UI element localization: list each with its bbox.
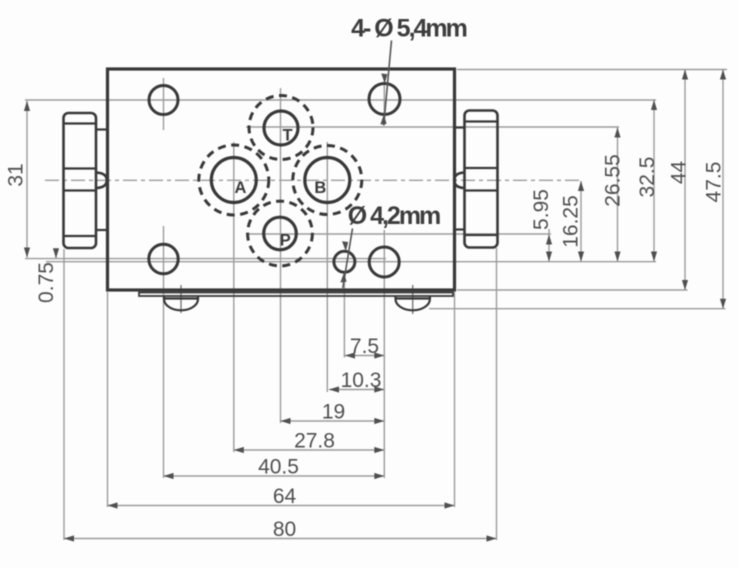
column port B [326,142,328,392]
port T dashed circle [249,96,313,160]
left tab detent bump [96,173,107,189]
port B dashed circle [293,146,362,215]
dim 26.55 arrow up [614,128,620,138]
svg-text:27.8: 27.8 [294,430,335,453]
port T solid circle [264,111,298,145]
dim 47.5 arrow down [720,299,726,309]
port A dashed circle [199,145,269,215]
right bump center tick [412,285,414,314]
dim 16.25 arrow down [578,252,584,262]
column right holes upper [383,80,385,125]
dimension 7.5 line [345,355,384,357]
plate body [108,69,455,290]
port B solid circle [305,158,350,203]
left side tab [64,113,97,248]
svg-text:0.75: 0.75 [35,262,58,303]
dim 64 arrow right [445,502,455,508]
svg-text:7.5: 7.5 [350,335,379,358]
dim 32.5 arrow up [651,100,657,110]
dim 80 arrow right [487,535,497,541]
right side tab [465,111,498,248]
mounting hole bottom-right [369,247,399,277]
dim 5.95 arrow down [546,252,552,262]
dimension 0.75 line [55,249,57,259]
column small hole [343,275,345,358]
right tab band top line [465,167,498,169]
extension plate left edge down [107,292,109,507]
svg-text:19: 19 [322,401,345,424]
right screw bump [396,297,430,311]
leader 4.2 arrow bottom (up) [340,273,346,283]
svg-text:32.5: 32.5 [636,157,659,198]
dim 10.3 arrow right [374,386,384,392]
extension plate right edge down [454,292,456,507]
dim 27.8 arrow left [234,447,244,453]
right tab bottom inner line [465,234,498,236]
left screw bump [164,297,198,311]
dim 64 arrow left [108,502,118,508]
left tab band bottom line [64,189,97,191]
extension line plate bottom edge right [457,289,688,291]
dimension 80 line [64,538,497,540]
dim 5.95 arrow up [546,235,552,245]
dim 26.55 arrow down [614,252,620,262]
dimension 31 line [26,101,28,258]
left tab top inner line [64,122,97,124]
column port A [233,142,235,452]
mounting hole bottom-left [149,244,178,273]
extension line bump bottom right [429,308,726,310]
dim 44 arrow up [682,70,688,80]
dimension 27.8 line [234,449,384,451]
svg-text:80: 80 [273,518,296,541]
left bump center tick [180,285,182,313]
dim 31 arrow up [24,101,30,111]
svg-text:A: A [235,179,247,197]
dimension 26.55 line [617,128,619,262]
dim 16.25 arrow up [578,181,584,191]
svg-text:4- Ø 5,4mm: 4- Ø 5,4mm [351,15,467,43]
left tab top step [96,128,108,130]
dim 32.5 arrow down [651,252,657,262]
right tab top inner line [465,120,498,122]
svg-text:B: B [314,179,326,197]
dim 19 arrow right [374,418,384,424]
svg-text:Ø 4,2mm: Ø 4,2mm [348,202,440,230]
dim 19 arrow left [281,418,291,424]
dimension 32.5 line [653,100,655,262]
extension right tab outer edge down [496,248,498,540]
port P dashed circle [248,201,313,266]
port A solid circle [211,158,256,203]
leader line for 4.2mm hole [343,229,353,289]
port P solid circle [264,217,297,250]
right tab band bottom line [465,189,498,191]
centerline H3 through ports A and B (dash-dot) [45,179,583,181]
dim 31 arrow down [24,248,30,258]
extension left tab outer edge down [63,249,65,540]
leader arrow bottom (up) [380,115,386,125]
extension line plate top edge right [457,69,727,71]
dim 80 arrow left [64,535,74,541]
svg-text:T: T [282,127,292,145]
dim 44 arrow down [682,280,688,290]
left tab bottom step [96,229,108,231]
extension line B bottom hole row [46,261,656,263]
dimension 5.95 line [548,229,550,262]
svg-text:5.95: 5.95 [530,189,553,230]
svg-text:P: P [280,231,291,249]
dimension 16.25 line [580,181,582,262]
dim 10.3 arrow left [329,386,339,392]
right tab detent bump [454,173,464,189]
dimension 64 line [108,505,455,507]
dimension 19 line [281,420,385,422]
bottom strip [139,293,453,297]
dimension 47.5 line [722,70,724,309]
dim 0.75 arrow down [53,248,59,258]
right tab bottom step [455,228,465,230]
leader line for 5.4mm holes [384,41,392,126]
column ports T P [280,88,282,423]
svg-text:40.5: 40.5 [258,456,299,479]
dim 47.5 arrow up [720,70,726,80]
dim 7.5 arrow right [374,352,384,358]
svg-text:26.55: 26.55 [602,154,625,207]
svg-text:31: 31 [5,163,28,186]
dimension 44 line [684,70,686,291]
dim 27.8 arrow right [374,447,384,453]
mounting hole top-right [369,84,400,115]
centerline H4 through port P [246,233,551,235]
svg-text:64: 64 [273,485,297,508]
dim 7.5 arrow left [345,352,355,358]
dim 40.5 arrow right [374,473,384,479]
extension line A bottom-left hole row [25,258,386,260]
dimension 40.5 line [164,475,385,477]
centerline H2 through port T [246,126,619,128]
small hole diameter 4.2 [334,251,355,272]
svg-text:47.5: 47.5 [703,162,726,203]
dimension 10.3 line [329,389,384,391]
left tab band top line [64,167,97,169]
column right holes lower [383,230,385,478]
column left holes lower [163,226,165,478]
centerline H1 top holes row [25,99,656,101]
svg-text:44: 44 [668,161,691,185]
svg-text:16.25: 16.25 [560,195,583,248]
right tab top step [455,126,465,128]
leader arrow top (down) [381,74,387,84]
column left holes upper [163,78,165,130]
left tab bottom inner line [64,235,97,237]
svg-text:10.3: 10.3 [341,369,382,392]
dim 40.5 arrow left [164,473,174,479]
mounting hole top-left [149,86,178,115]
leader 4.2 arrow top (down) [342,241,348,251]
